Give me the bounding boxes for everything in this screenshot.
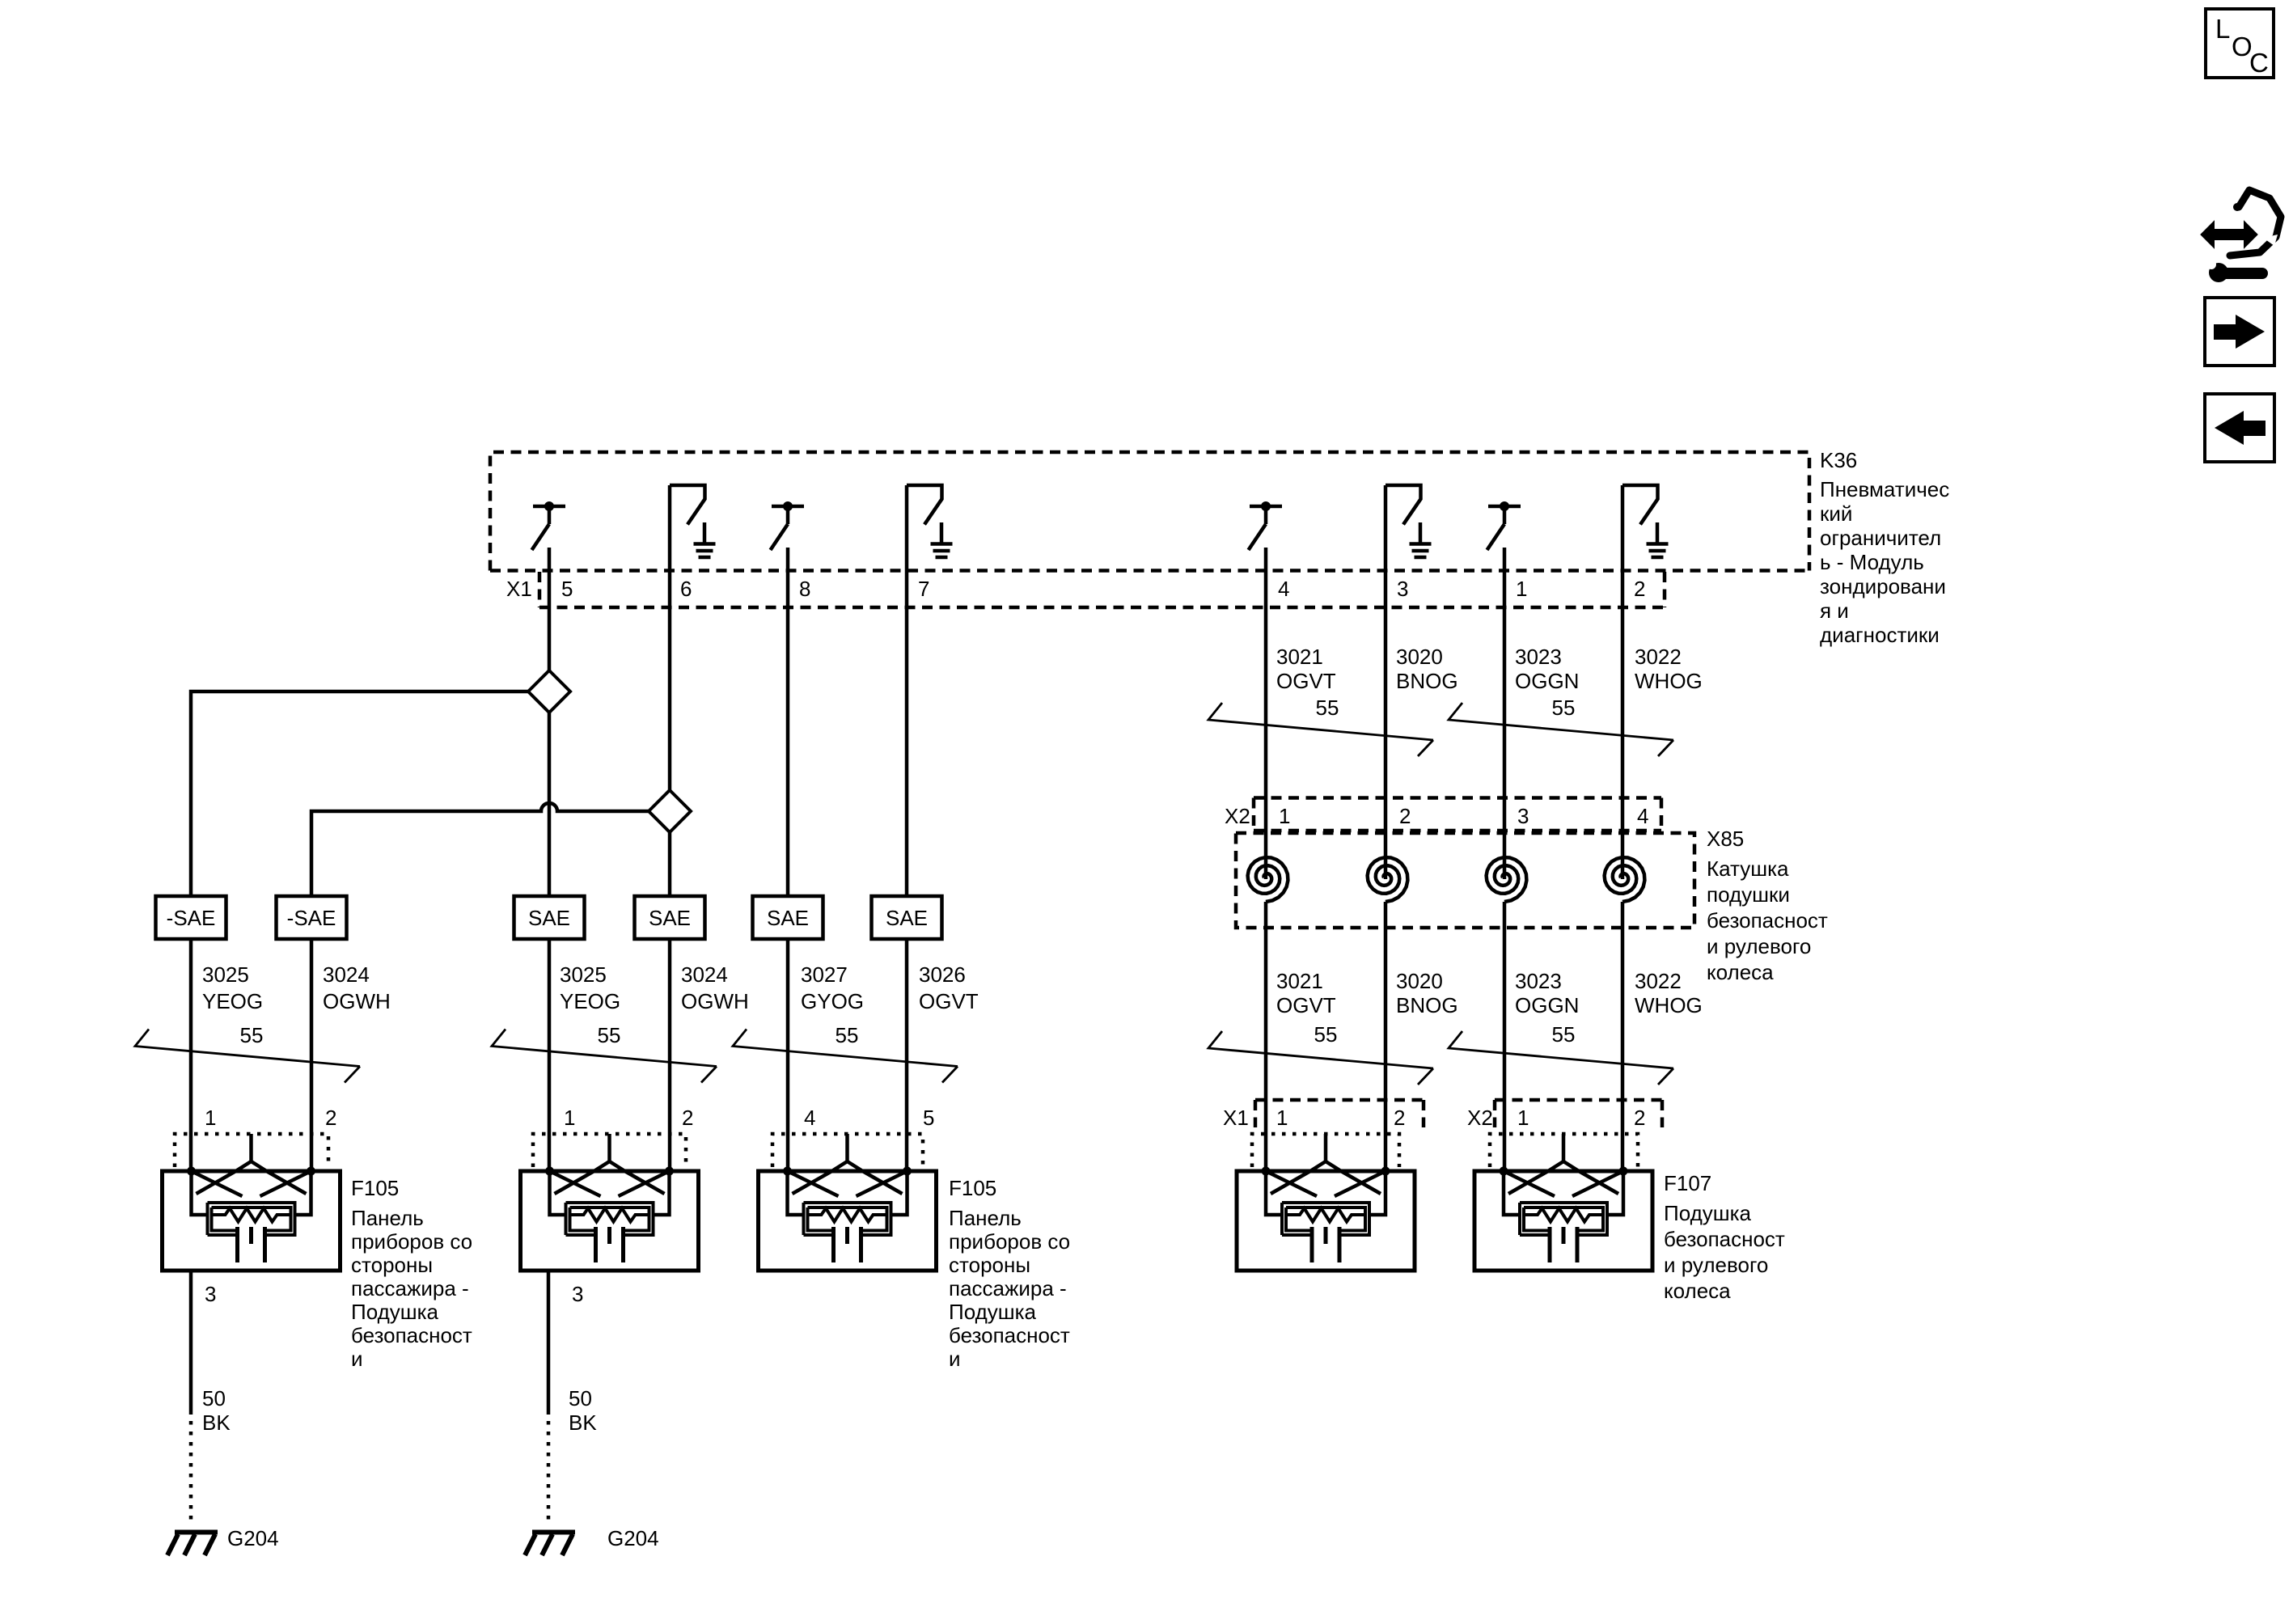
X85 name label — [1707, 827, 1828, 984]
svg-text:Подушка: Подушка — [351, 1300, 439, 1324]
resistor SAE 3 — [514, 896, 585, 939]
svg-text:GYOG: GYOG — [801, 989, 864, 1013]
twisted pair C — [733, 1030, 958, 1083]
driver switch pin 1 — [1487, 501, 1521, 550]
wire pin6 lower to SAE — [668, 832, 672, 896]
airbag F107 driver 1 — [1237, 1134, 1415, 1271]
svg-text:3027: 3027 — [801, 962, 848, 987]
svg-text:2: 2 — [1634, 1106, 1645, 1130]
svg-text:F105: F105 — [949, 1176, 996, 1200]
svg-text:Подушка: Подушка — [1664, 1201, 1752, 1225]
svg-text:пассажира -: пассажира - — [949, 1276, 1067, 1300]
svg-text:3020: 3020 — [1396, 645, 1443, 669]
connector face B — [533, 1134, 686, 1167]
svg-text:OGVT: OGVT — [1276, 669, 1336, 693]
driver switch pin 5 — [532, 501, 566, 550]
svg-text:F107: F107 — [1664, 1171, 1711, 1195]
svg-text:SAE: SAE — [528, 906, 570, 930]
svg-text:и: и — [949, 1347, 961, 1371]
wire 3025 A — [189, 939, 193, 1171]
wire 3027 — [786, 939, 790, 1171]
svg-text:55: 55 — [836, 1023, 859, 1047]
ground switch pin 2 — [1622, 485, 1669, 557]
wire 50 BK B solid — [547, 1271, 551, 1415]
resistor -SAE 1 — [156, 896, 226, 939]
svg-text:5: 5 — [923, 1106, 934, 1130]
svg-text:3024: 3024 — [681, 962, 728, 987]
svg-text:1: 1 — [1276, 1106, 1288, 1130]
svg-text:3: 3 — [1517, 804, 1529, 828]
twisted pair D upper — [1208, 703, 1433, 756]
svg-text:5: 5 — [561, 577, 573, 601]
svg-text:X85: X85 — [1707, 827, 1744, 851]
resistor SAE 4 — [635, 896, 705, 939]
svg-text:SAE: SAE — [649, 906, 691, 930]
svg-text:OGGN: OGGN — [1515, 669, 1579, 693]
wire 50 BK A dotted — [189, 1421, 193, 1525]
wire 3024 A — [310, 939, 314, 1171]
svg-text:WHOG: WHOG — [1635, 669, 1703, 693]
svg-text:Панель: Панель — [351, 1206, 424, 1230]
airbag F105 stage1 — [163, 1134, 341, 1271]
svg-text:стороны: стороны — [351, 1253, 433, 1277]
svg-text:50: 50 — [202, 1386, 226, 1410]
svg-text:BNOG: BNOG — [1396, 669, 1458, 693]
svg-text:ограничител: ограничител — [1820, 526, 1941, 550]
wire 3024 B — [668, 939, 672, 1171]
coil 1 — [1248, 857, 1288, 902]
svg-text:и рулевого: и рулевого — [1664, 1253, 1768, 1277]
svg-text:колеса: колеса — [1707, 960, 1774, 984]
svg-text:3: 3 — [1397, 577, 1408, 601]
svg-text:стороны: стороны — [949, 1253, 1030, 1277]
resistor -SAE 2 — [277, 896, 347, 939]
svg-text:G204: G204 — [227, 1526, 279, 1550]
svg-text:3025: 3025 — [202, 962, 249, 987]
wire pin3 to coil — [1384, 485, 1388, 879]
svg-text:C: C — [2249, 48, 2269, 78]
splice diamond S2 — [649, 790, 691, 832]
svg-text:OGWH: OGWH — [681, 989, 749, 1013]
svg-text:55: 55 — [240, 1023, 264, 1047]
svg-text:3021: 3021 — [1276, 969, 1323, 993]
connector face E — [1490, 1134, 1638, 1167]
airbag F105 stage2 — [759, 1134, 937, 1271]
wire 3021 lower — [1264, 902, 1268, 1171]
svg-text:ь - Модуль: ь - Модуль — [1820, 550, 1924, 574]
connector X1 of F107 — [1255, 1100, 1424, 1127]
F105 label A — [351, 1176, 472, 1371]
ground switch pin 3 — [1386, 485, 1432, 557]
svg-text:пассажира -: пассажира - — [351, 1276, 469, 1300]
driver switch pin 8 — [771, 501, 805, 550]
svg-text:4: 4 — [804, 1106, 815, 1130]
svg-text:1: 1 — [1279, 804, 1290, 828]
svg-text:зондировани: зондировани — [1820, 574, 1946, 598]
svg-text:OGGN: OGGN — [1515, 993, 1579, 1017]
svg-text:3: 3 — [205, 1282, 216, 1306]
svg-text:2: 2 — [1394, 1106, 1405, 1130]
svg-text:OGVT: OGVT — [1276, 993, 1336, 1017]
airbag F107 driver 2 — [1474, 1134, 1652, 1271]
wire pin5 lower to SAE — [548, 713, 552, 896]
connector face C — [772, 1134, 923, 1167]
svg-text:4: 4 — [1278, 577, 1289, 601]
svg-text:3024: 3024 — [323, 962, 370, 987]
svg-text:и: и — [351, 1347, 363, 1371]
wire 50 BK A solid — [189, 1271, 193, 1415]
coil 2 — [1368, 857, 1408, 902]
svg-text:Катушка: Катушка — [1707, 856, 1789, 881]
svg-text:SAE: SAE — [886, 906, 928, 930]
svg-text:YEOG: YEOG — [202, 989, 263, 1013]
svg-text:K36: K36 — [1820, 448, 1857, 472]
svg-text:WHOG: WHOG — [1635, 993, 1703, 1017]
svg-text:BK: BK — [569, 1410, 597, 1435]
twisted pair D lower — [1208, 1031, 1433, 1085]
svg-text:55: 55 — [1552, 696, 1576, 720]
svg-text:2: 2 — [1634, 577, 1645, 601]
wire pin2 to coil — [1621, 485, 1625, 879]
K36 X1 connector row — [539, 572, 1665, 607]
svg-text:я и: я и — [1820, 598, 1849, 623]
svg-text:Панель: Панель — [949, 1206, 1022, 1230]
connector face A — [175, 1134, 328, 1167]
wire 50 BK B dotted — [547, 1421, 551, 1525]
K36 name label — [1820, 448, 1949, 647]
svg-text:1: 1 — [1516, 577, 1527, 601]
connector face D — [1252, 1134, 1399, 1167]
svg-text:6: 6 — [680, 577, 692, 601]
twisted pair E upper — [1449, 703, 1673, 756]
svg-text:3022: 3022 — [1635, 969, 1682, 993]
twisted pair A — [135, 1030, 360, 1083]
svg-text:L: L — [2215, 14, 2230, 44]
svg-text:1: 1 — [1517, 1106, 1529, 1130]
coil 3 — [1487, 857, 1527, 902]
svg-text:2: 2 — [682, 1106, 693, 1130]
sketch icon: double arrow, hook outline, wrench — [2202, 190, 2281, 282]
svg-text:3025: 3025 — [560, 962, 607, 987]
svg-text:-SAE: -SAE — [167, 906, 216, 930]
svg-text:X2: X2 — [1467, 1106, 1493, 1130]
wire pin6 upper — [668, 485, 672, 790]
driver switch pin 4 — [1249, 501, 1283, 550]
svg-text:3023: 3023 — [1515, 645, 1562, 669]
svg-text:SAE: SAE — [767, 906, 809, 930]
svg-text:OGVT: OGVT — [919, 989, 979, 1013]
wire branch from S1 to -SAE column — [191, 691, 528, 896]
svg-text:X1: X1 — [506, 577, 532, 601]
svg-text:2: 2 — [1399, 804, 1411, 828]
splice diamond S1 — [528, 670, 570, 713]
svg-text:3023: 3023 — [1515, 969, 1562, 993]
connector X2 of F107 — [1495, 1100, 1662, 1127]
svg-text:подушки: подушки — [1707, 882, 1790, 907]
svg-text:3022: 3022 — [1635, 645, 1682, 669]
svg-text:-SAE: -SAE — [287, 906, 336, 930]
resistor SAE 5 — [753, 896, 823, 939]
wire branch from S2 with hop over pin5 wire — [311, 803, 649, 896]
svg-text:1: 1 — [564, 1106, 575, 1130]
svg-text:и рулевого: и рулевого — [1707, 934, 1811, 958]
svg-text:Пневматичес: Пневматичес — [1820, 477, 1949, 501]
svg-text:F105: F105 — [351, 1176, 399, 1200]
svg-text:кий: кий — [1820, 501, 1852, 526]
svg-text:диагностики: диагностики — [1820, 623, 1940, 647]
svg-text:3: 3 — [572, 1282, 583, 1306]
wire 3026 — [905, 939, 909, 1171]
svg-text:3020: 3020 — [1396, 969, 1443, 993]
left arrow box — [2205, 394, 2274, 462]
svg-text:55: 55 — [598, 1023, 621, 1047]
wire 3020 lower — [1384, 902, 1388, 1171]
svg-text:BNOG: BNOG — [1396, 993, 1458, 1017]
svg-text:55: 55 — [1552, 1022, 1576, 1047]
svg-text:приборов со: приборов со — [949, 1229, 1070, 1254]
twisted pair B — [492, 1030, 717, 1083]
svg-text:2: 2 — [325, 1106, 336, 1130]
svg-text:безопасност: безопасност — [1707, 908, 1828, 933]
wire 3025 B — [548, 939, 552, 1171]
svg-text:55: 55 — [1314, 1022, 1338, 1047]
coil 4 — [1605, 857, 1645, 902]
wire pin5 upper — [548, 548, 552, 670]
svg-text:7: 7 — [918, 577, 929, 601]
right arrow box — [2205, 298, 2274, 366]
wire pin7 to SAE — [905, 485, 909, 896]
wire pin1 to coil — [1503, 548, 1507, 879]
ground G204 A — [167, 1533, 218, 1556]
svg-text:50: 50 — [569, 1386, 592, 1410]
ground switch pin 6 — [670, 485, 716, 557]
ground switch pin 7 — [907, 485, 953, 557]
svg-text:OGWH: OGWH — [323, 989, 391, 1013]
airbag F105 stage1b — [521, 1134, 699, 1271]
svg-text:YEOG: YEOG — [560, 989, 620, 1013]
svg-text:55: 55 — [1316, 696, 1339, 720]
twisted pair E lower — [1449, 1031, 1673, 1085]
svg-text:Подушка: Подушка — [949, 1300, 1037, 1324]
F107 label — [1664, 1171, 1785, 1303]
svg-text:безопасност: безопасност — [1664, 1227, 1785, 1251]
svg-text:G204: G204 — [607, 1526, 659, 1550]
svg-text:колеса: колеса — [1664, 1279, 1731, 1303]
svg-text:8: 8 — [799, 577, 810, 601]
wire pin4 to coil — [1264, 548, 1268, 879]
svg-text:приборов со: приборов со — [351, 1229, 472, 1254]
svg-text:4: 4 — [1637, 804, 1648, 828]
svg-text:X1: X1 — [1223, 1106, 1249, 1130]
wire 3022 lower — [1621, 902, 1625, 1171]
F105 label C — [949, 1176, 1070, 1371]
svg-text:1: 1 — [205, 1106, 216, 1130]
svg-text:безопасност: безопасност — [351, 1323, 472, 1347]
wire pin8 to SAE — [786, 548, 790, 896]
svg-text:3026: 3026 — [919, 962, 966, 987]
svg-text:безопасност: безопасност — [949, 1323, 1070, 1347]
ground G204 B — [525, 1533, 575, 1556]
wire 3023 lower — [1503, 902, 1507, 1171]
svg-text:X2: X2 — [1225, 804, 1250, 828]
svg-text:3021: 3021 — [1276, 645, 1323, 669]
resistor SAE 6 — [872, 896, 942, 939]
svg-text:BK: BK — [202, 1410, 231, 1435]
